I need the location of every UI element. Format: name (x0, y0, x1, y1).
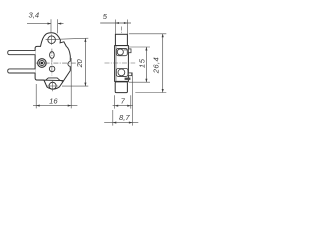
bottom mounting hole (49, 82, 56, 89)
lower contact rivet (118, 69, 125, 76)
dim 16 arrows (36, 105, 71, 107)
upper pin hole (oblong) (50, 52, 55, 59)
dim 3,4 line right tail with arrow (58, 23, 64, 25)
lamp holder body outline (35, 33, 70, 82)
dim 7 extension left (114, 95, 116, 108)
side body (115, 46, 129, 82)
dim 26,4 extension bottom (135, 92, 166, 94)
dim 8,7 extension left (112, 110, 114, 126)
lower pin hole (49, 66, 55, 72)
dim 3,4 extension line left (50, 19, 52, 33)
dim 7 extension right (130, 95, 132, 108)
top hole crosshair vertical (51, 34, 53, 45)
dim 5 line right tail with arrow (124, 22, 128, 24)
dim 8,7 extension right (131, 73, 133, 126)
dim 15 extension top (129, 46, 150, 48)
dim 26,4 extension top (129, 33, 166, 35)
dim 5 extension right (126, 20, 128, 35)
svg-text:20: 20 (75, 59, 84, 68)
side view horizontal centerline (105, 62, 136, 64)
dim 16 extension right (70, 58, 72, 108)
bottom hole crosshair horizontal (47, 85, 58, 87)
lower contact foot (125, 78, 131, 80)
dim 20 bottom extension (62, 85, 88, 87)
upper contact fold line (124, 49, 128, 51)
svg-text:16: 16 (49, 96, 58, 105)
side view vertical centerline stub (120, 27, 122, 35)
dim 5 line left tail with arrow (100, 22, 131, 24)
lower contact nub (128, 73, 131, 76)
upper contact clip (116, 48, 127, 55)
top tab block (115, 34, 127, 45)
bottom tab bump (46, 78, 60, 80)
dim 5 extension left (114, 20, 116, 35)
horizontal centerline (36, 62, 80, 64)
upper contact nub (128, 49, 131, 53)
dim 20 line (84, 38, 86, 86)
vertical centerline (51, 49, 53, 76)
dim 16 line (33, 105, 77, 107)
bottom tab block (115, 82, 127, 93)
dim 8,7 arrows (113, 122, 133, 124)
dim 16 extension left (35, 84, 37, 108)
center rivet middle (39, 60, 44, 65)
bottom edge line (36, 79, 63, 82)
dim 15 extension bottom (129, 81, 150, 83)
lower contact clip (116, 69, 128, 77)
svg-text:26,4: 26,4 (152, 57, 161, 74)
top mounting hole (48, 36, 56, 44)
edge notch semicircle (right, on centerline) (68, 61, 71, 66)
svg-text:8,7: 8,7 (119, 113, 130, 122)
dim 26,4 line (162, 34, 164, 93)
inner face line (115, 46, 117, 82)
dim 8,7 line (104, 122, 138, 124)
pin 1 (upper lead) (8, 51, 36, 55)
dim 15 line (145, 47, 147, 82)
svg-text:15: 15 (138, 58, 147, 68)
bottom hole crosshair vertical (52, 81, 54, 91)
pin 2 (lower lead) (8, 69, 36, 73)
svg-text:3,4: 3,4 (29, 11, 40, 20)
dim 7 arrows (115, 105, 131, 107)
center rivet outer (38, 59, 47, 68)
dim 3,4 extension line right (57, 19, 59, 33)
center rivet dot (41, 62, 44, 65)
bottom tab outline (44, 80, 63, 89)
dim 7 line (113, 105, 133, 107)
upper contact rivet (117, 49, 123, 55)
dim 3,4 line left tail with arrow (27, 23, 51, 25)
dim 20 top extension (through top hole) (46, 38, 89, 40)
